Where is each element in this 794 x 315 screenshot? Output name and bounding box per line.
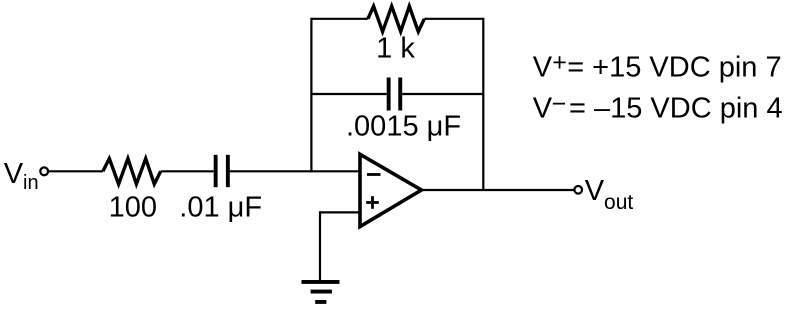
svg-text:Vin: Vin xyxy=(4,158,39,194)
svg-text:Vout: Vout xyxy=(585,175,634,214)
svg-text:V: V xyxy=(533,52,553,84)
svg-text:.01 μF: .01 μF xyxy=(179,192,262,224)
svg-text:+: + xyxy=(552,48,567,76)
svg-text:= +15 VDC pin 7: = +15 VDC pin 7 xyxy=(567,52,781,84)
svg-text:1 k: 1 k xyxy=(376,33,415,65)
svg-text:.0015 μF: .0015 μF xyxy=(346,111,461,143)
svg-text:= –15 VDC pin 4: = –15 VDC pin 4 xyxy=(569,93,783,125)
svg-text:100: 100 xyxy=(109,192,157,224)
svg-text:−: − xyxy=(552,90,567,118)
svg-text:V: V xyxy=(533,93,553,125)
